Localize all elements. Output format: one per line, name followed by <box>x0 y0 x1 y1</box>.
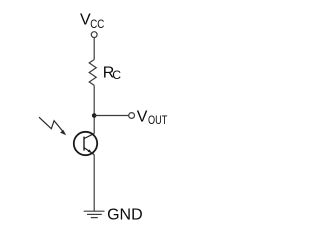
wire resistor to collector junction <box>93 85 95 133</box>
phototransistor Q1 collector lead <box>84 134 94 139</box>
phototransistor Q1 base bar <box>83 137 85 151</box>
light arrow <box>39 117 66 135</box>
resistor RC <box>89 60 96 86</box>
wire VCC terminal to resistor <box>93 38 95 60</box>
svg-text:V: V <box>137 108 148 125</box>
node VOUT junction dot <box>92 113 97 118</box>
phototransistor Q1 emitter lead <box>84 148 94 155</box>
svg-text:C: C <box>112 68 121 82</box>
wire emitter to ground <box>93 155 95 212</box>
svg-text:CC: CC <box>90 17 104 31</box>
VOUT terminal <box>129 113 135 119</box>
wire junction to VOUT terminal <box>94 115 129 117</box>
ground <box>84 211 105 217</box>
VCC terminal <box>91 32 97 38</box>
phototransistor Q1 body <box>74 132 97 155</box>
svg-text:OUT: OUT <box>148 113 168 127</box>
svg-text:GND: GND <box>107 207 143 224</box>
phototransistor Q1 emitter arrow <box>88 149 92 152</box>
